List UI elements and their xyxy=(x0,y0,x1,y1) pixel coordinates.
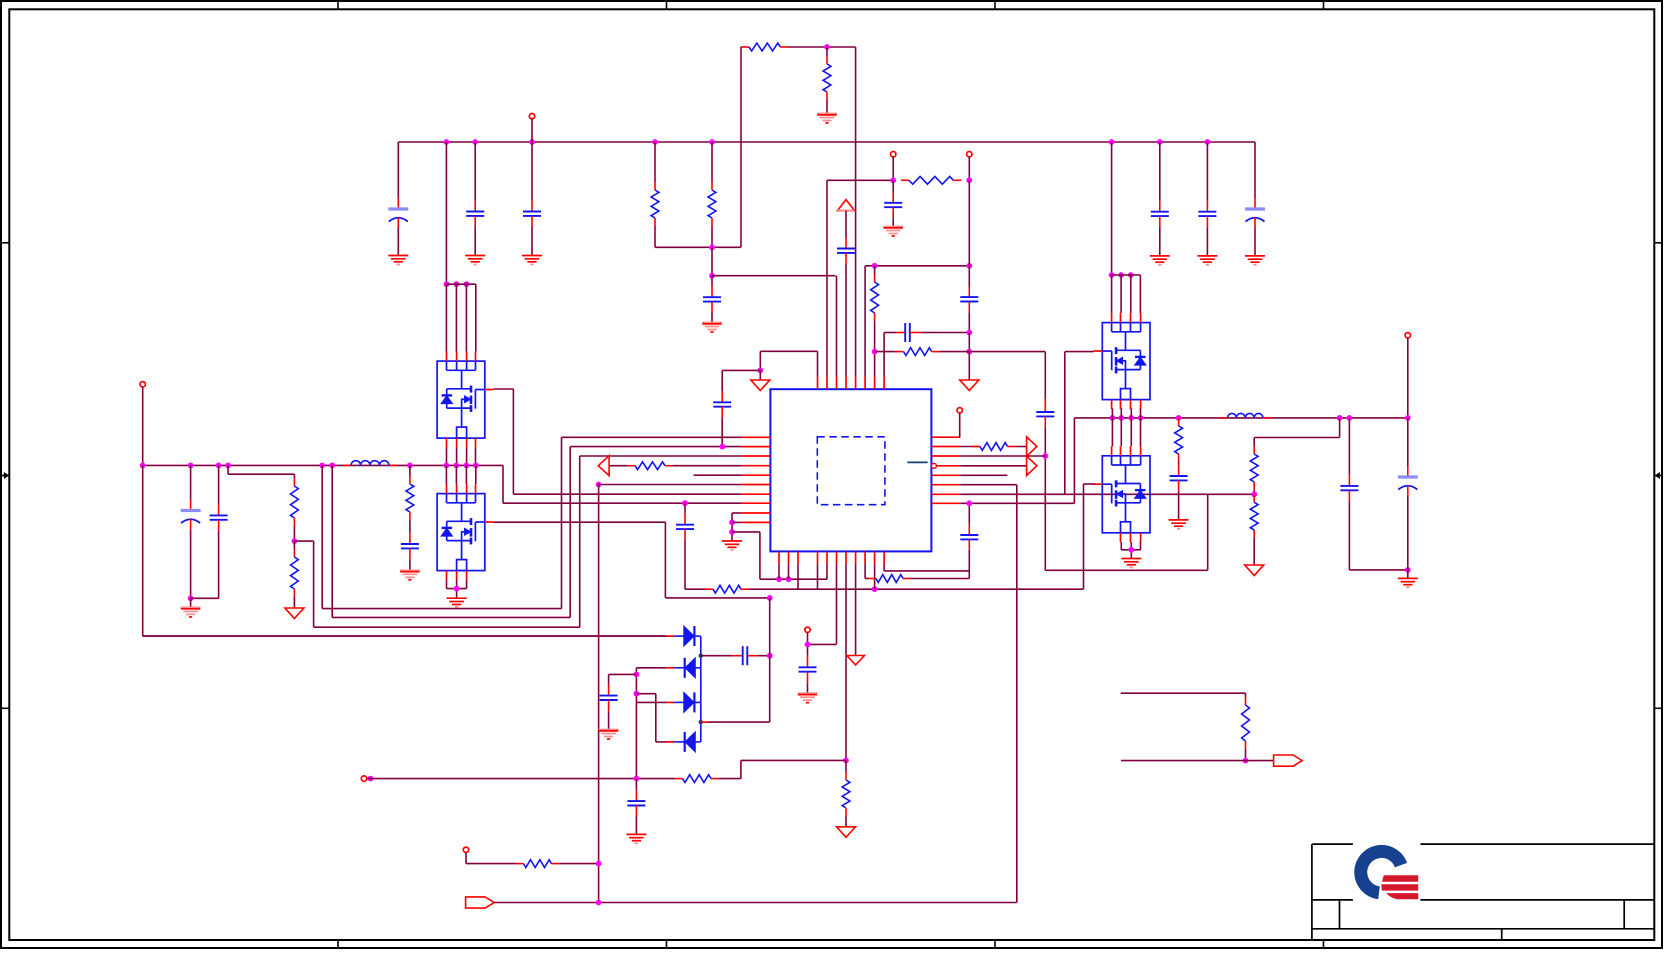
wire xyxy=(865,578,868,580)
diode D1 anode lead xyxy=(666,635,674,637)
wire xyxy=(664,522,666,598)
wire xyxy=(968,180,970,265)
junction xyxy=(454,281,460,287)
junction xyxy=(1405,567,1411,573)
wire xyxy=(1178,462,1180,465)
resistor R14 xyxy=(868,575,911,583)
wire xyxy=(636,693,655,695)
wire xyxy=(190,598,192,607)
wire xyxy=(695,635,701,637)
wire xyxy=(1245,693,1247,697)
wire xyxy=(865,265,969,267)
wire xyxy=(826,100,828,114)
junction xyxy=(1109,272,1115,278)
wire xyxy=(1140,542,1142,550)
wire xyxy=(712,275,836,277)
wire net row9 xyxy=(732,512,742,514)
capacitor C16 xyxy=(884,192,902,218)
wire xyxy=(1348,418,1350,475)
wire xyxy=(531,119,533,142)
wire xyxy=(1253,538,1255,565)
wire xyxy=(1120,418,1122,446)
wire xyxy=(721,370,723,391)
resistor R20 xyxy=(516,860,560,868)
junction xyxy=(786,576,792,582)
wire xyxy=(1083,484,1085,589)
junction xyxy=(1251,491,1257,497)
junction xyxy=(872,263,878,269)
wire xyxy=(474,142,476,201)
wire xyxy=(322,608,561,610)
junction xyxy=(699,654,703,658)
junction xyxy=(767,595,773,601)
ground xyxy=(400,570,420,580)
wire xyxy=(191,597,219,599)
wire xyxy=(294,540,313,542)
wire xyxy=(1120,542,1122,550)
junction xyxy=(1205,139,1211,145)
wire xyxy=(1348,501,1350,570)
resistor R7 xyxy=(406,476,414,520)
capacitor C19 xyxy=(960,524,978,550)
wire xyxy=(1121,692,1246,694)
wire xyxy=(654,226,656,247)
wire xyxy=(740,47,742,247)
junction xyxy=(464,281,470,287)
U1 bottom pin leads xyxy=(779,551,884,564)
wire xyxy=(711,276,713,286)
wire xyxy=(332,616,570,618)
wire xyxy=(674,701,684,703)
junction xyxy=(843,758,849,764)
wire xyxy=(636,667,666,669)
wire xyxy=(758,655,770,657)
junction xyxy=(729,520,735,526)
transistor Q3 (MOSFET) xyxy=(1102,323,1150,400)
wire xyxy=(1121,760,1274,762)
ground xyxy=(960,380,979,391)
wire net row3 xyxy=(580,455,742,457)
wire xyxy=(1407,418,1409,466)
resistor R1 xyxy=(741,43,788,51)
wire xyxy=(673,465,742,467)
wire xyxy=(1407,496,1409,570)
connector pin xyxy=(463,847,468,852)
logo xyxy=(1361,851,1418,899)
frame mid arrow left xyxy=(4,472,9,479)
wire xyxy=(884,332,896,334)
junction xyxy=(319,463,325,469)
wire xyxy=(635,817,637,835)
wire main top bus xyxy=(398,141,1255,143)
junction xyxy=(596,861,602,867)
diode D4 lead xyxy=(701,721,708,723)
capacitor C18 xyxy=(799,656,817,683)
wire xyxy=(494,388,514,390)
wire xyxy=(968,352,970,380)
capacitor C20 xyxy=(1170,465,1188,492)
resistor R6 xyxy=(291,549,299,597)
U1 inner pin line xyxy=(907,461,927,463)
wire M3 out xyxy=(1065,351,1094,353)
wire xyxy=(466,580,468,589)
wire xyxy=(1339,418,1341,438)
wire xyxy=(466,448,468,466)
wire xyxy=(1253,490,1255,494)
inductor L1 xyxy=(343,461,397,466)
junction xyxy=(407,463,413,469)
wire xyxy=(1111,275,1113,313)
resistor R4 xyxy=(823,56,831,100)
wire xyxy=(313,541,315,627)
wire xyxy=(864,564,866,578)
wire xyxy=(397,228,399,256)
frame zone ticks top xyxy=(338,1,1324,9)
wire xyxy=(579,456,581,627)
capacitor C10 xyxy=(401,533,419,559)
wire xyxy=(760,578,827,580)
junction xyxy=(596,900,602,906)
wire xyxy=(845,264,847,377)
wire xyxy=(960,502,1074,504)
wire xyxy=(855,564,857,655)
wire xyxy=(968,333,970,352)
wire M2 switch node xyxy=(494,521,666,523)
wire xyxy=(569,447,571,618)
wire xyxy=(1112,274,1141,276)
wire xyxy=(959,413,961,437)
frame mid arrow right xyxy=(1655,472,1660,479)
ground xyxy=(465,256,485,265)
resistor R19 xyxy=(675,775,719,783)
ground xyxy=(1245,256,1265,265)
wire net row1 xyxy=(562,436,742,438)
wire xyxy=(367,778,675,780)
ground xyxy=(1169,520,1189,529)
wire pin2 net xyxy=(826,180,828,376)
junction xyxy=(709,273,715,279)
junction xyxy=(292,538,298,544)
wire y=417.9 net xyxy=(1074,417,1407,419)
wire xyxy=(1206,227,1208,256)
wire xyxy=(711,226,713,247)
junction xyxy=(188,595,194,601)
wire xyxy=(665,635,667,637)
resistor R17 xyxy=(1250,446,1258,490)
wire xyxy=(1178,491,1180,520)
resistor R21 xyxy=(1242,697,1250,749)
wire xyxy=(397,142,399,198)
connector pin xyxy=(361,776,366,781)
wire xyxy=(1120,275,1122,313)
wire xyxy=(911,578,969,580)
wire xyxy=(665,597,769,599)
wire xyxy=(845,760,847,772)
wire xyxy=(708,721,770,723)
wire xyxy=(1044,427,1046,570)
ground xyxy=(722,541,742,550)
junction xyxy=(444,139,450,145)
wire xyxy=(293,474,295,478)
wire xyxy=(1245,749,1247,761)
wire xyxy=(1159,227,1161,256)
wire xyxy=(874,321,876,377)
wire net row8 xyxy=(503,502,742,504)
junction xyxy=(454,586,460,592)
wire xyxy=(1045,569,1207,571)
title block xyxy=(1312,844,1655,940)
wire xyxy=(656,741,666,743)
ground xyxy=(817,114,837,124)
junction xyxy=(699,720,703,724)
wire y=589 net xyxy=(685,588,705,590)
wire xyxy=(331,465,333,617)
ground xyxy=(285,608,304,619)
resistor R11 xyxy=(627,462,673,470)
wire xyxy=(760,350,817,352)
wire xyxy=(502,465,504,503)
junction xyxy=(454,463,460,469)
resistor R16 xyxy=(1175,418,1183,462)
junction xyxy=(966,349,972,355)
wire xyxy=(1130,275,1132,313)
transistor Q2 (MOSFET) xyxy=(437,494,485,571)
diode D3 xyxy=(684,692,695,712)
wire xyxy=(218,531,220,598)
wire xyxy=(759,351,761,370)
wire xyxy=(474,227,476,256)
wire xyxy=(456,448,458,466)
wire xyxy=(446,283,475,285)
junction xyxy=(1243,758,1249,764)
junction xyxy=(216,463,222,469)
junction xyxy=(1118,272,1124,278)
wire xyxy=(1349,569,1407,571)
capacitor C23 xyxy=(732,646,758,665)
wire xyxy=(465,465,467,484)
wire xyxy=(1121,549,1140,551)
ground xyxy=(702,323,722,333)
wire xyxy=(531,142,533,201)
U1 right pin leads xyxy=(931,437,960,503)
wire xyxy=(826,564,828,579)
capacitor C1 (polarized) xyxy=(388,198,408,228)
wire xyxy=(740,760,742,778)
wire xyxy=(635,668,637,779)
junction xyxy=(444,281,450,287)
wire xyxy=(142,387,144,466)
wire xyxy=(455,465,457,484)
wire xyxy=(749,588,1084,590)
wire xyxy=(836,564,838,644)
wire xyxy=(1140,408,1142,418)
resistor R3 xyxy=(708,182,716,226)
port xyxy=(1274,755,1303,766)
wire xyxy=(1130,542,1132,559)
connector pin xyxy=(140,382,145,387)
wire xyxy=(445,142,447,284)
wire xyxy=(560,863,599,865)
wire xyxy=(695,741,701,743)
wire xyxy=(143,635,666,637)
wire xyxy=(665,635,667,637)
wire xyxy=(807,683,809,693)
U1 inverting pin bubble xyxy=(931,463,936,468)
ground xyxy=(181,607,201,617)
wire xyxy=(228,473,294,475)
wire xyxy=(475,465,477,484)
capacitor C14 xyxy=(960,287,978,312)
capacitor C12 xyxy=(837,238,855,265)
wire xyxy=(512,389,514,494)
wire xyxy=(788,564,790,579)
capacitor C21 xyxy=(1340,475,1358,501)
wire xyxy=(409,559,411,570)
inductor L2 xyxy=(1220,413,1272,417)
junction xyxy=(329,463,335,469)
junction xyxy=(757,368,763,374)
junction xyxy=(634,672,640,678)
wire xyxy=(293,526,295,541)
wire xyxy=(1254,437,1339,439)
wire xyxy=(808,643,837,645)
diode D2 lead xyxy=(666,667,674,669)
junction xyxy=(872,586,878,592)
port arrow xyxy=(1027,437,1037,456)
wire xyxy=(711,312,713,323)
wire xyxy=(1254,228,1256,256)
wire xyxy=(883,564,885,571)
junction xyxy=(1109,139,1115,145)
wire xyxy=(788,46,855,48)
wire xyxy=(455,284,457,351)
ground xyxy=(599,730,619,740)
diode D4 anode lead xyxy=(666,741,674,743)
wire xyxy=(875,351,896,353)
junction xyxy=(634,691,640,697)
junction xyxy=(529,139,535,145)
wire pin3 net xyxy=(836,276,838,377)
wire xyxy=(608,674,610,684)
wire xyxy=(684,503,686,513)
junction xyxy=(652,139,658,145)
wire xyxy=(1407,338,1409,418)
wire xyxy=(466,863,516,865)
wire xyxy=(654,142,656,182)
capacitor C6 xyxy=(1198,201,1216,227)
resistor R12 xyxy=(705,585,749,593)
wire xyxy=(759,370,761,380)
junction xyxy=(719,444,725,450)
capacitor C17 xyxy=(676,514,694,541)
wire pin8 net xyxy=(883,333,885,377)
transistor Q4 (MOSFET) xyxy=(1102,456,1150,533)
wire xyxy=(968,550,970,579)
IC U1 xyxy=(770,389,931,551)
connector pin xyxy=(957,408,962,413)
wire xyxy=(960,465,1026,467)
capacitor C3 xyxy=(523,201,541,228)
frame zone ticks left xyxy=(1,243,9,709)
wire xyxy=(561,437,563,608)
wire xyxy=(701,655,732,657)
resistor R10 xyxy=(901,176,961,184)
wire xyxy=(446,580,448,589)
wire xyxy=(409,520,411,533)
wire xyxy=(695,667,701,669)
connector pin VIN xyxy=(529,114,534,119)
resistor R13 xyxy=(842,772,850,816)
wire xyxy=(1139,275,1141,313)
resistor R8 xyxy=(871,274,879,321)
port xyxy=(466,897,495,908)
wire xyxy=(884,570,969,572)
junction xyxy=(890,177,896,183)
capacitor C5 xyxy=(1151,201,1169,227)
wire xyxy=(1016,485,1018,903)
capacitor C2 xyxy=(466,201,484,228)
wire xyxy=(892,157,894,181)
U1 left pin leads xyxy=(742,437,771,522)
wire xyxy=(827,179,893,181)
junction xyxy=(1138,415,1144,421)
wire xyxy=(968,503,970,524)
junction xyxy=(767,653,773,659)
wire xyxy=(465,284,467,351)
wire xyxy=(940,351,1046,353)
diode D1 xyxy=(684,626,695,646)
wire xyxy=(531,227,533,256)
wire xyxy=(968,266,970,287)
wire xyxy=(1111,418,1113,446)
wire xyxy=(190,465,192,499)
connector pin xyxy=(805,627,810,632)
junction xyxy=(1118,415,1124,421)
wire net row5 xyxy=(694,474,742,476)
wire xyxy=(494,902,1017,904)
junction xyxy=(824,44,830,50)
wire xyxy=(731,513,733,541)
wire xyxy=(190,530,192,598)
diode D3 lead xyxy=(666,701,674,703)
wire xyxy=(855,47,857,377)
wire xyxy=(826,47,828,56)
wire xyxy=(445,284,447,351)
capacitor C9 xyxy=(210,504,228,531)
junction xyxy=(966,177,972,183)
junction xyxy=(1110,415,1116,421)
junction xyxy=(872,349,878,355)
capacitor C7 (polarized) xyxy=(1245,198,1265,228)
ground xyxy=(1121,559,1141,568)
junction xyxy=(1157,139,1163,145)
junction xyxy=(1042,453,1048,459)
junction xyxy=(368,776,374,782)
transistor Q1 (MOSFET) xyxy=(437,361,485,438)
ground xyxy=(1398,578,1418,587)
wire xyxy=(721,418,723,447)
wire xyxy=(960,474,1007,476)
wire xyxy=(1111,142,1113,275)
frame zone ticks bottom xyxy=(338,940,1324,948)
junction xyxy=(1347,415,1353,421)
junction xyxy=(1405,415,1411,421)
wire xyxy=(1207,494,1209,570)
wire xyxy=(807,632,809,655)
frame zone ticks right xyxy=(1654,243,1662,709)
wire net row6 xyxy=(599,484,742,486)
wire xyxy=(1120,408,1122,418)
